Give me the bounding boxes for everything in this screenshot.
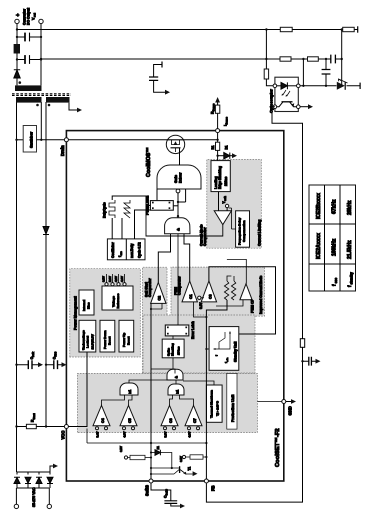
node divider tap on + rail [16,28,18,30]
wire AC L to bridge [15,488,17,504]
Y capacitor plates [149,77,158,80]
Undervoltage Lockout box [79,320,96,352]
svg-text:CoolMOS™: CoolMOS™ [146,147,152,177]
wire C3 output [209,267,276,334]
inductor Lout [14,44,20,54]
wire soft start comp lower input [151,303,162,309]
OR gate G2 [120,383,138,395]
bridge rectifier left rail [16,487,49,489]
opto pin LED anode [273,84,277,88]
svg-text:PWM OP: PWM OP [251,298,255,313]
svg-text:VCC: VCC [61,431,66,440]
pin VCC [64,425,68,429]
svg-text:Sense: Sense [225,116,229,124]
svg-text:Error Latch: Error Latch [191,321,195,339]
ground arrow (opto emitter) [308,104,313,109]
node Cout1 bottom [40,58,42,60]
pin GND [282,400,286,404]
wire LEB to C1 input [218,192,220,211]
wire VCC internal [68,352,87,427]
svg-text:Standby Unit: Standby Unit [234,341,238,362]
svg-text:GND: GND [288,406,293,415]
polarity dot primary [36,104,39,107]
node divider mid tap [341,28,343,30]
zener Z1 on SoftS [151,452,155,454]
svg-text:Sense: Sense [212,103,216,111]
gray section: Standby Unit [143,315,255,373]
svg-text:220ns: 220ns [224,176,228,186]
pull-up supply circle (FB) [182,455,185,458]
svg-text:6.5V: 6.5V [119,446,123,452]
node drain/primary junction [40,139,42,141]
wire secondary top rail [16,21,18,85]
svg-text:Comparator: Comparator [148,278,152,297]
wire comp cap branch [325,59,327,86]
svg-text:C3: C3 [209,294,213,299]
ground arrow (CVCC) [62,362,67,367]
svg-text:0.3V: 0.3V [199,302,203,309]
resistor RStart [26,424,36,428]
wire driver to gate [179,148,181,165]
gray section: Protection Unit [77,373,257,432]
svg-text:Reset: Reset [108,337,112,345]
svg-text:&: & [176,228,181,231]
node line B tap on - rail [40,58,42,60]
opto pin collector [273,105,277,109]
svg-text:CoolSET™-F2: CoolSET™-F2 [275,428,281,467]
capacitor CVCC [46,364,62,366]
ground arrow (CSoftS) [180,504,185,509]
Spike Blanking box [162,339,184,358]
svg-text:21.5kHz: 21.5kHz [347,240,353,259]
AC input terminal N [47,504,51,508]
svg-text:R1: R1 [211,145,215,149]
svg-text:Gate: Gate [174,175,178,183]
svg-text:13.5V/8.5V: 13.5V/8.5V [91,333,95,349]
waveform glyph clock [109,200,115,218]
wires PWM OP [216,259,246,306]
opto light arrows [283,90,290,96]
svg-text:Drain: Drain [60,145,65,156]
wire SoftS external [151,483,171,501]
wire TL431 cathode line [298,85,360,87]
svg-text:C1: C1 [189,294,193,299]
resistor R1 (internal sense) [216,142,220,150]
pin FB [204,479,208,483]
svg-text:≥1: ≥1 [176,390,180,394]
pin SoftS [149,479,153,483]
ground arrow (GND pin) [291,399,296,404]
comparator C3 [201,281,216,302]
wire FB internal [206,300,227,479]
wire SoftS internal [150,303,152,479]
svg-text:Reset: Reset [127,337,131,345]
capacitor CFB [303,360,316,362]
bridge diode B1 [16,472,18,488]
node D1 tap [216,155,218,157]
svg-text:4.0V: 4.0V [120,276,124,282]
wire sawtooth down to PWM section [135,210,151,239]
Power Down Reset box [100,320,115,352]
svg-text:out: out [33,13,37,17]
node FB filter tap [301,360,303,362]
pin CS [216,129,220,133]
resistor R5 (LED series) [264,69,268,79]
transistor T1 [151,467,180,469]
svg-text:Oscillator: Oscillator [111,242,115,258]
ground arrow (D1) [232,153,237,158]
ground arrow (bridge) [53,464,58,469]
wires comparators to gates [102,380,194,405]
svg-text:SoftS: SoftS [145,485,150,496]
bulk capacitor junction on bus [15,364,17,366]
svg-text:csth: csth [224,196,227,201]
wire PWM comp output to AND [184,234,190,281]
svg-text:6.5V: 6.5V [102,276,106,282]
svg-text:osc: osc [334,278,338,284]
gray section: Current Limiting [207,160,261,249]
wire G4 to spike blanking [172,358,174,369]
svg-text:≥1: ≥1 [128,390,132,394]
pull-up supply circle (SoftS) [124,456,127,459]
svg-text:C7: C7 [193,418,197,423]
input circle 0.3V [198,296,201,299]
svg-text:bulk: bulk [32,351,35,357]
node Cout1 top [16,58,18,60]
node VCC rail junction [45,425,47,427]
svg-text:osc: osc [120,251,123,256]
wires osc outputs [112,218,122,239]
comparator C4 [93,405,110,425]
resistor RSense [215,105,219,113]
Error Latch box [165,325,189,336]
wire bus to RStart [17,426,27,428]
resistor RFB pull-up [186,456,207,458]
svg-text:max.Duty: max.Duty [130,243,134,258]
Thermal Shutdown box [206,385,222,422]
svg-text:DutyCycle: DutyCycle [103,202,107,218]
HV+ bus wire [16,102,18,472]
wire R1 to LEB [217,150,219,160]
resistor R4 [308,57,319,61]
Power Up Reset box [119,320,134,352]
capacitor C5 (series in line B) [331,55,336,64]
svg-text:4.0V: 4.0V [123,431,127,437]
AND gate G1 [165,218,190,234]
svg-text:Tj > 140°C: Tj > 140°C [216,400,220,416]
wire CS external + sense resistor [217,113,219,128]
resistor R2 (divider lower) [343,27,355,31]
wire drain internal [68,139,167,141]
wire RStart to VCC rail [36,426,46,428]
svg-text:SoftS: SoftS [166,489,169,496]
wire line B [41,58,342,60]
Internal Bias box [79,290,94,315]
svg-text:FB: FB [211,485,216,491]
wire emitter to ground [300,106,308,108]
svg-text:Power Up: Power Up [122,333,126,347]
wire secondary bottom rail [40,21,42,85]
Leading Edge Blanking box [211,161,230,192]
capacitor Cbulk [17,364,39,366]
svg-text:Driver: Driver [178,172,182,183]
resistor RFB (series in FB line) [300,339,304,348]
Y capacitor wire [154,65,165,93]
svg-text:5.3V: 5.3V [164,431,168,437]
svg-text:Optocoupler: Optocoupler [269,89,274,113]
transformer core dashed lines [12,94,71,96]
svg-text:DC Output: DC Output [26,7,30,25]
ground arrow (Cbulk) [38,362,43,367]
svg-text:Improved Current Mode: Improved Current Mode [259,276,263,314]
resistor RSoftS pull-up [128,457,151,459]
node Cout2 top [16,36,18,38]
gate driver block [157,165,201,189]
standby graph [214,332,230,349]
snubber junction on bus [15,139,17,141]
opto transistor [282,101,293,103]
svg-text:C6: C6 [169,418,173,423]
svg-text:Cycle 0.72: Cycle 0.72 [138,242,142,258]
svg-text:20kHz: 20kHz [347,200,353,215]
oscillator box [107,239,145,260]
svg-text:Z1: Z1 [156,446,160,450]
diode D1 [218,155,224,157]
Standby Unit box [209,327,239,371]
svg-text:4.8V: 4.8V [114,276,118,282]
AND gate G4 [167,369,183,380]
wire primary bottom lead [40,102,42,140]
resistor R1 (divider upper) [280,27,292,31]
wire error latch to AND input [177,234,179,325]
wire source to CS pin [217,133,219,140]
IC CoolSET-F2 outer box [66,131,283,481]
Voltage Reference box [102,286,133,310]
diode DVCC (aux rectifier) [43,227,49,235]
inverter bubble at driver input [176,189,180,193]
node divider junction A [265,28,267,30]
svg-text:5.4V: 5.4V [96,431,100,437]
wire thermal to gate [151,369,214,385]
snubber box [23,126,36,153]
wire divider line A [17,29,358,31]
wire source [184,139,218,141]
wire clock to latch [112,196,150,205]
wire opto collector to FB (long loop) [206,107,302,502]
VCC rail wire (aux winding to pin) [45,102,47,427]
optocoupler box [275,77,298,111]
pin Drain [64,138,68,142]
wire GND internal [257,401,281,403]
opto pin emitter [297,105,301,109]
svg-text:Lockout: Lockout [85,336,89,348]
bridge rectifier right rail [16,471,50,473]
reference output pins [105,283,108,286]
transformer aux winding bar [46,97,70,103]
svg-text:D1: D1 [225,145,229,149]
svg-text:Thermal Shutdown: Thermal Shutdown [210,390,214,418]
wire snubber to drain node [37,139,67,141]
output terminal - [39,19,43,23]
startup resistor RStart junction [15,425,17,427]
Propagation Delay Compensation box [236,211,250,247]
wire standby taps FB [206,348,209,350]
wire driver aux input [178,189,186,202]
wire latch output to AND tip [173,205,178,207]
svg-text:Compensation: Compensation [242,220,246,242]
opto pin LED cathode [297,84,301,88]
aux bottom wire [69,103,77,110]
wire source to sense resistor R1 [217,140,219,142]
svg-text:Current Limiting: Current Limiting [258,220,262,246]
svg-text:6.5V: 6.5V [179,456,183,462]
ground arrow (aux winding) [77,108,82,113]
svg-text:T1: T1 [188,467,192,471]
svg-text:67kHz: 67kHz [332,199,338,214]
svg-text:Bias: Bias [87,302,91,309]
comparator C5 [120,405,137,425]
svg-text:ICE2Bxxxx: ICE2Bxxxx [316,193,322,219]
PWM latch box [150,201,173,211]
svg-text:Blanking: Blanking [171,343,175,356]
TL431 end tick [359,83,361,89]
ground arrow (Y cap) [165,90,170,95]
capacitor C6 (compensation) [322,70,331,75]
output terminal + [15,19,19,23]
resistor zigzag Rfb2 [231,281,235,300]
OR gate G3 [168,384,184,395]
wire C1 output to latch [146,205,223,236]
current arrow ISense [215,97,220,103]
node Cout2 bottom [40,36,42,38]
wire cross link row2-row3 [302,59,304,86]
bridge diode B3 [38,472,40,488]
svg-text:Power Down: Power Down [103,330,107,349]
capacitor CSoftS [164,501,177,504]
divider end tick [357,26,359,32]
wire PDC to C1 [229,208,236,229]
wire VCC pin stub [46,426,64,428]
internal bias rail [87,429,206,444]
polarity dot aux [48,104,51,107]
AC input terminal L [14,504,18,508]
ground arrow (CFB) [316,359,321,364]
svg-text:Propagation-Delay: Propagation-Delay [238,217,242,245]
svg-text:85-270 VAC: 85-270 VAC [32,487,36,507]
svg-text:VCC: VCC [55,351,58,356]
capacitor Cout2 [17,36,41,38]
wire C2 output to AND [158,234,170,283]
svg-text:5.3V: 5.3V [108,276,112,282]
gray section: Improved Current Mode [171,267,265,316]
wire LED branch [266,30,275,86]
svg-text:Snubber: Snubber [28,131,33,148]
Protection Unit label box [227,373,237,429]
diode Dout (output rectifier) [14,70,20,78]
gray section: Power Management [70,269,141,357]
wire spike to error latch [172,336,174,339]
comparator C2 [151,282,166,303]
svg-text:C4: C4 [101,418,105,423]
svg-text:Internal: Internal [82,300,86,311]
node line B junctions [265,58,267,60]
table frame [309,185,356,291]
svg-text:Edge Blanking: Edge Blanking [218,166,222,189]
svg-text:Reference: Reference [116,293,120,308]
svg-text:Protection Unit: Protection Unit [231,394,235,422]
svg-text:Power Management: Power Management [74,295,78,330]
wire AND to driver [177,193,179,218]
svg-text:standby: standby [350,272,354,284]
resistor R3 [280,57,291,61]
svg-text:Start: Start [32,413,36,419]
wire bus to snubber [17,139,24,141]
svg-text:f: f [215,355,219,356]
op amp PWM OP [240,284,252,300]
svg-text:190ns: 190ns [177,346,181,355]
svg-text:ICE2Axxxx: ICE2Axxxx [316,233,322,259]
svg-text:C2: C2 [158,296,162,301]
svg-text:C5: C5 [128,418,132,423]
polarity dot secondary [19,81,22,84]
svg-text:min: min [227,357,229,362]
wire latch to driver top [156,189,158,201]
bridge minus stub [50,466,53,472]
transformer primary winding bar [16,97,42,103]
node SoftS taps [150,456,152,458]
comparator C1p [182,281,197,302]
comparator C1 (current mode, points left) [214,211,231,225]
svg-text:4.8V: 4.8V [188,431,192,437]
svg-text:100kHz: 100kHz [332,238,338,256]
comparator C6 [161,405,178,425]
svg-text:Voltage: Voltage [112,296,116,307]
Y cap secondary-side tick [161,62,163,68]
VCC cap junction on rail [45,364,47,366]
resistor zigzag Rfb1 [224,281,228,300]
node source junction [216,139,218,141]
svg-text:+: + [16,14,22,17]
comparator C7 [185,405,202,425]
TL431 shunt regulator [337,82,345,90]
capacitor Cout1 [17,59,41,61]
waveform glyph sawtooth [124,200,130,218]
wire AC N to bridge [48,488,50,504]
transformer secondary winding bar [15,85,42,91]
wire ref link [341,30,343,86]
bridge diode B2 [27,472,29,488]
input circle Vcsth [225,204,228,207]
gray section: soft-start / latch band [143,267,168,373]
opto LED [277,85,281,87]
wire FB to PWM comp input [194,302,207,317]
wire GND pin [286,401,291,403]
bridge diode B4 [49,472,51,488]
transistor CoolMOS Q1 [166,135,184,153]
